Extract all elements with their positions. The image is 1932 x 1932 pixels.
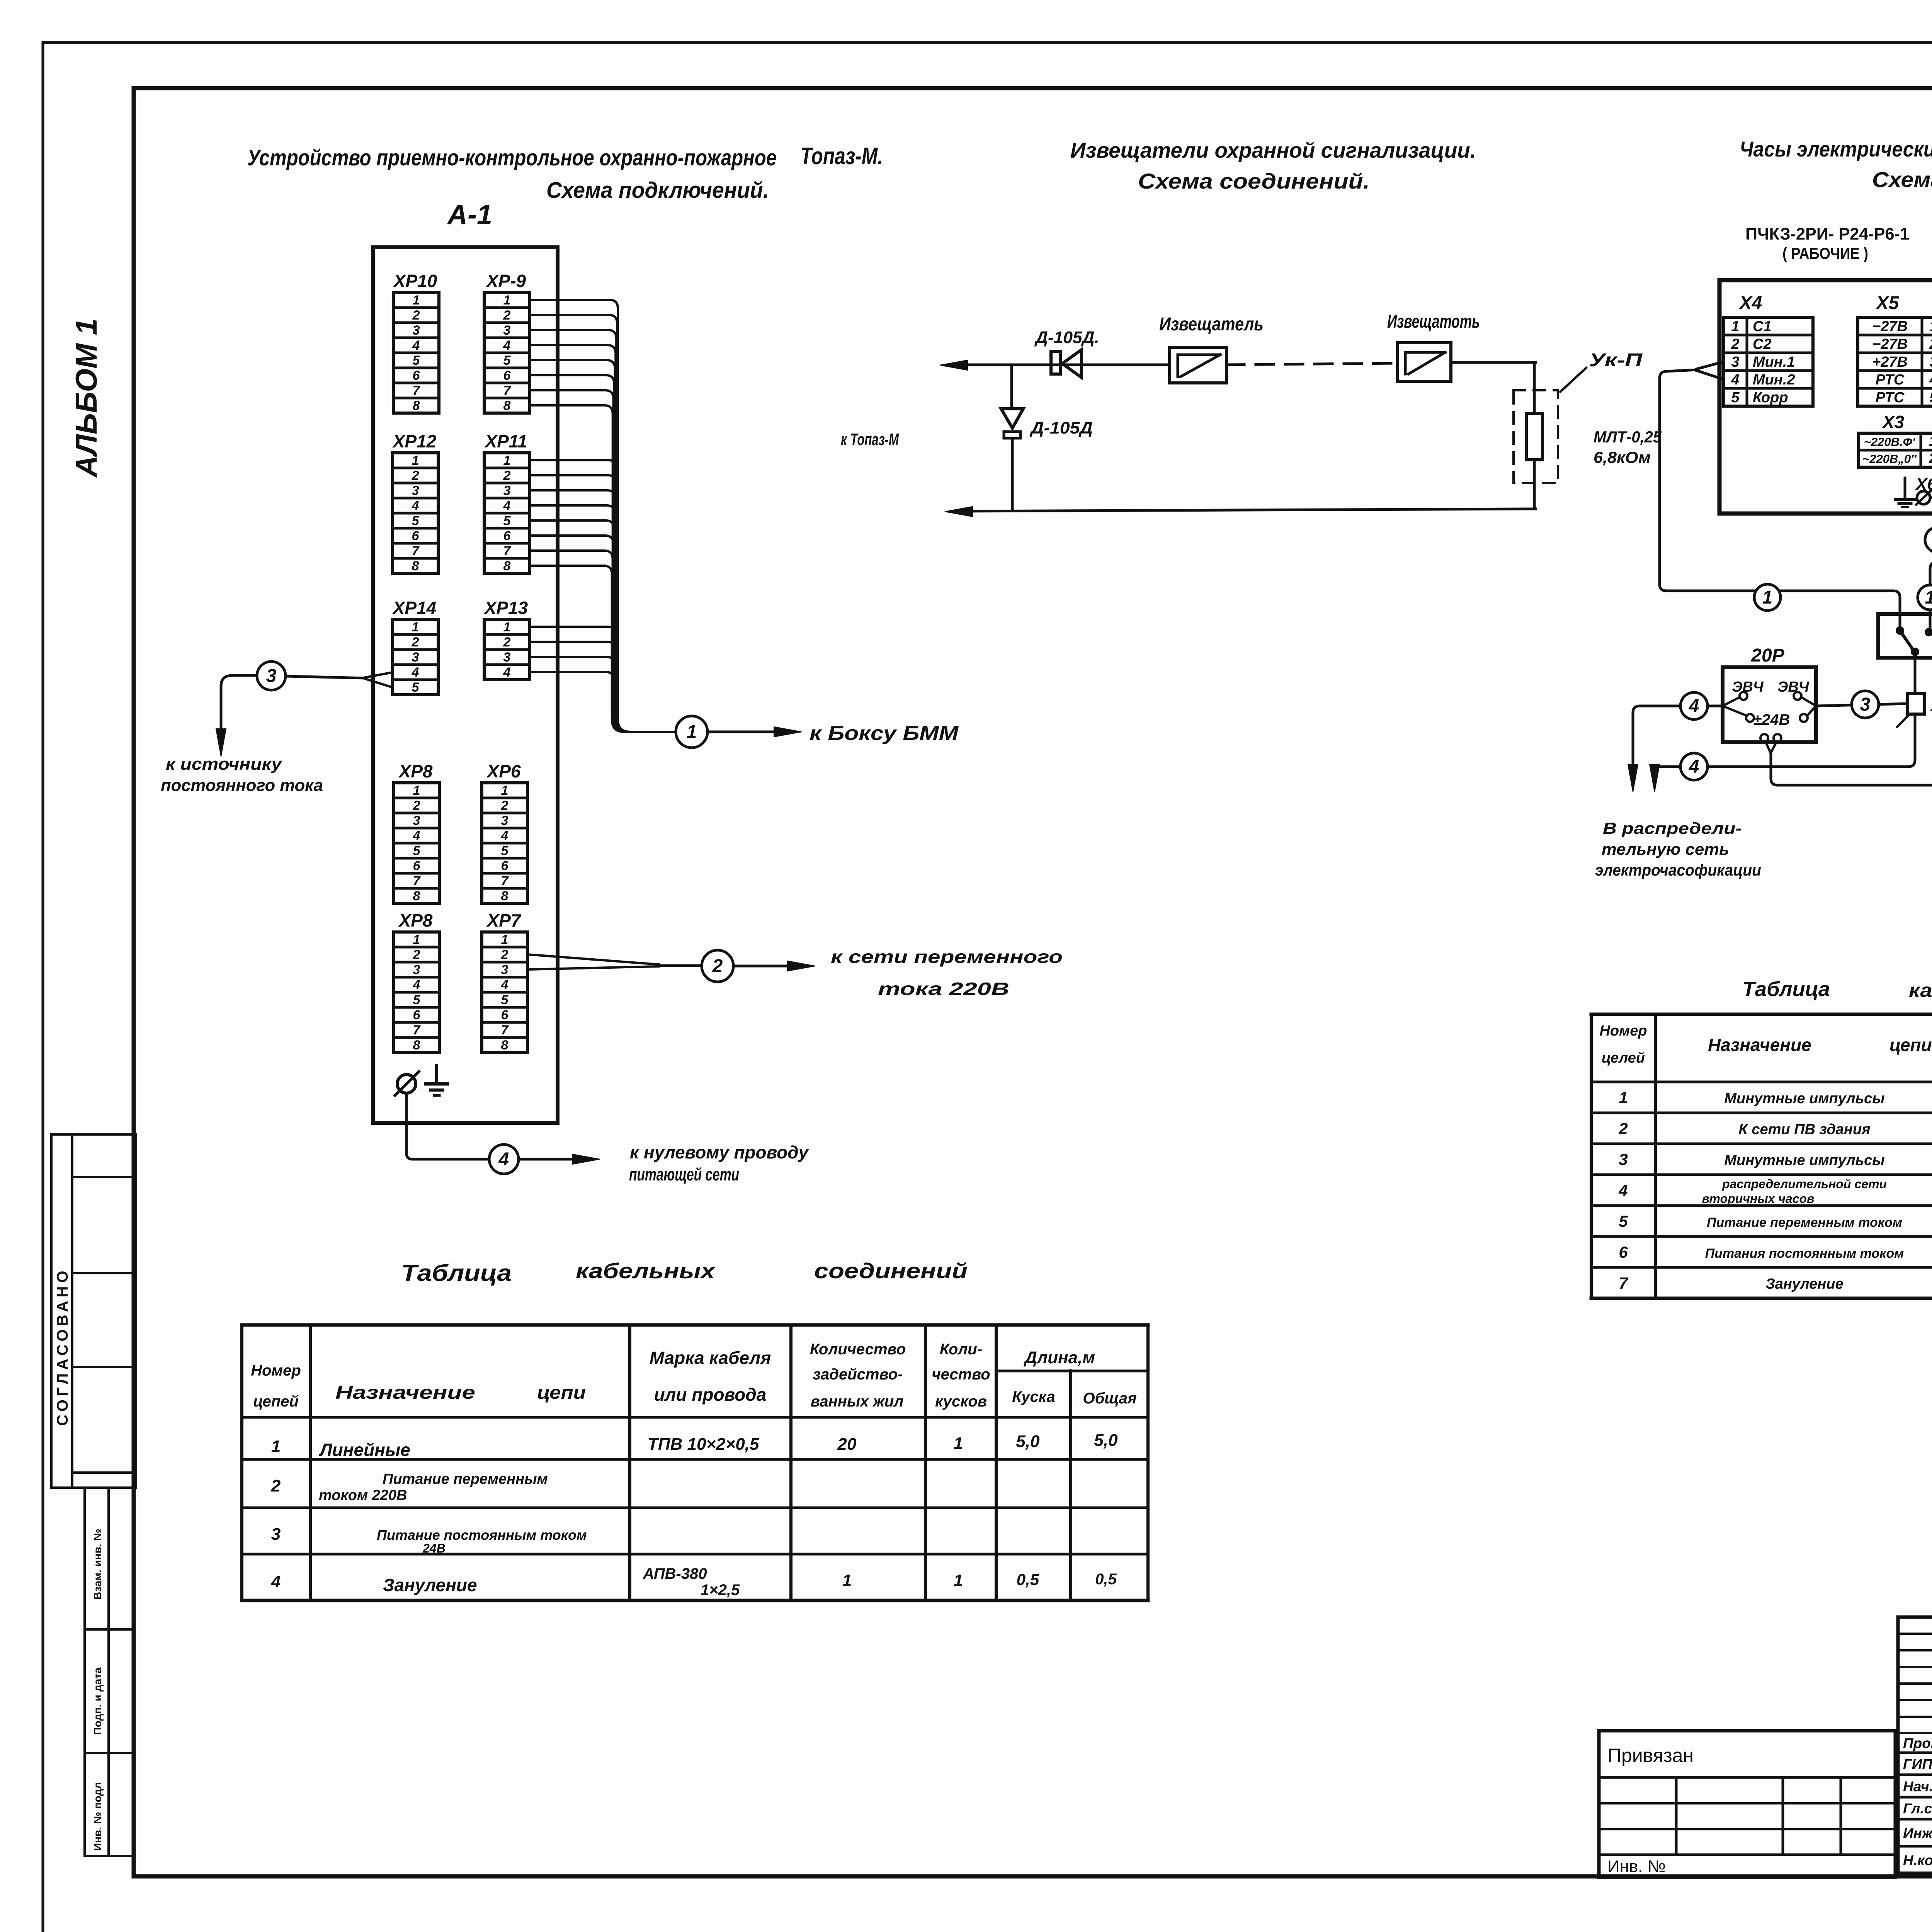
svg-text:Питание переменным: Питание переменным [383,1471,548,1487]
svg-text:−27В: −27В [1872,336,1908,352]
svg-text:4: 4 [1689,757,1699,777]
svg-text:6: 6 [501,1008,509,1022]
svg-text:Х4: Х4 [1738,293,1762,313]
svg-text:Инж.: Инж. [1903,1825,1932,1841]
svg-text:7: 7 [413,1023,421,1037]
svg-text:РТС: РТС [1876,372,1905,388]
svg-text:2: 2 [1929,450,1932,466]
svg-text:питающей сети: питающей сети [629,1164,739,1184]
svg-text:4: 4 [1731,372,1739,388]
svg-text:Минутные импульсы: Минутные импульсы [1724,1090,1884,1107]
svg-text:ХР13: ХР13 [483,598,528,618]
svg-text:ХР8: ХР8 [398,761,433,781]
svg-text:4: 4 [503,338,511,353]
svg-text:СОГЛАСОВАНО: СОГЛАСОВАНО [54,1267,71,1426]
svg-text:6: 6 [413,1008,421,1022]
svg-text:1: 1 [413,932,420,947]
svg-text:Корр: Корр [1753,389,1788,406]
svg-text:3: 3 [1619,1150,1628,1168]
svg-text:вторичных часов: вторичных часов [1702,1192,1815,1206]
svg-text:1: 1 [503,293,511,308]
svg-text:АПВ-380: АПВ-380 [643,1565,707,1582]
svg-text:4: 4 [412,665,419,680]
svg-text:4: 4 [412,498,419,513]
svg-text:2: 2 [501,798,509,813]
svg-text:Инв. № подл: Инв. № подл [92,1782,104,1851]
svg-text:ванных жил: ванных жил [811,1393,904,1410]
svg-text:Мин.1: Мин.1 [1753,354,1795,370]
svg-text:1: 1 [954,1571,963,1590]
svg-text:1: 1 [503,620,511,634]
svg-text:Питание постоянным током: Питание постоянным током [377,1527,587,1543]
svg-text:2: 2 [1618,1119,1628,1138]
svg-text:±24В: ±24В [1753,711,1790,728]
svg-text:3: 3 [501,813,509,828]
svg-text:Куска: Куска [1012,1388,1055,1405]
svg-text:1: 1 [1731,318,1739,335]
svg-text:4: 4 [1689,696,1699,716]
svg-text:1: 1 [1762,587,1773,608]
svg-text:Привязан: Привязан [1607,1745,1694,1766]
svg-text:4: 4 [413,978,420,992]
svg-text:С2: С2 [1753,336,1772,352]
svg-text:7: 7 [503,544,512,558]
svg-text:распределительной сети: распределительной сети [1722,1177,1887,1191]
svg-text:8: 8 [413,1038,420,1053]
svg-text:к Топаз-М: к Топаз-М [841,430,899,449]
svg-text:Номер: Номер [1599,1023,1647,1039]
svg-text:3: 3 [271,1525,281,1544]
svg-text:20Р: 20Р [1751,645,1784,666]
svg-text:ЭВЧ: ЭВЧ [1732,679,1764,695]
svg-text:1: 1 [954,1434,963,1453]
svg-text:8: 8 [413,398,420,413]
svg-text:Назначение: Назначение [335,1383,475,1403]
svg-text:Зануление: Зануление [383,1575,477,1595]
svg-text:Нач.отдела: Нач.отдела [1903,1779,1932,1794]
svg-text:ХР12: ХР12 [392,431,437,451]
svg-text:АЛЬБОМ 1: АЛЬБОМ 1 [69,318,103,478]
svg-text:3: 3 [412,483,419,498]
svg-text:1: 1 [842,1571,852,1590]
svg-text:Мин.2: Мин.2 [1753,372,1795,388]
svg-text:+27В: +27В [1872,354,1908,370]
svg-text:4: 4 [413,828,420,843]
svg-text:УК-П: УК-П [1930,696,1932,715]
svg-text:8: 8 [412,559,419,573]
svg-text:Назначение: Назначение [1708,1035,1811,1055]
svg-text:Номер: Номер [251,1362,301,1379]
svg-text:ТПВ 10×2×0,5: ТПВ 10×2×0,5 [648,1435,759,1454]
svg-text:к Боксу БММ: к Боксу БММ [810,722,959,745]
svg-text:1: 1 [413,783,420,798]
svg-text:С1: С1 [1753,318,1772,335]
svg-text:цепи: цепи [537,1383,586,1403]
svg-text:Топаз-М.: Топаз-М. [800,143,883,170]
svg-text:5: 5 [501,993,509,1007]
svg-text:8: 8 [501,1038,509,1053]
svg-text:Линейные: Линейные [319,1440,410,1460]
svg-text:ХР7: ХР7 [486,910,522,930]
svg-text:3: 3 [413,963,420,977]
svg-text:РТС: РТС [1876,389,1905,406]
svg-text:кусков: кусков [935,1393,987,1410]
svg-text:МЛТ-0,25: МЛТ-0,25 [1594,428,1662,446]
svg-text:3: 3 [266,666,277,686]
svg-text:Зануление: Зануление [1765,1276,1843,1292]
svg-text:5: 5 [1619,1212,1628,1230]
svg-text:Ук-П: Ук-П [1589,350,1643,371]
svg-text:3: 3 [503,650,511,665]
svg-text:4: 4 [412,338,420,353]
svg-text:8: 8 [503,398,511,413]
svg-text:задейство-: задейство- [813,1366,903,1383]
svg-text:соединений: соединений [814,1259,968,1283]
svg-text:К сети ПВ здания: К сети ПВ здания [1738,1121,1870,1138]
svg-text:Д-105Д: Д-105Д [1029,418,1093,437]
svg-text:1×2,5: 1×2,5 [701,1582,740,1599]
svg-text:8: 8 [501,889,509,903]
svg-text:3: 3 [503,483,511,498]
svg-text:1: 1 [412,620,419,634]
svg-text:1: 1 [687,722,697,742]
svg-text:кабельных: кабельных [1909,980,1932,1001]
svg-text:Общая: Общая [1083,1390,1136,1407]
svg-text:4: 4 [1929,372,1932,388]
svg-text:А-1: А-1 [447,199,492,230]
svg-text:2: 2 [412,468,419,483]
svg-text:Минутные импульсы: Минутные импульсы [1724,1152,1884,1168]
svg-text:3: 3 [413,323,420,338]
svg-text:кабельных: кабельных [576,1259,716,1283]
svg-text:1: 1 [503,453,511,468]
svg-text:4: 4 [501,978,509,992]
svg-text:6,8кОм: 6,8кОм [1594,448,1651,466]
svg-text:5: 5 [503,514,511,528]
svg-text:7: 7 [412,544,420,558]
svg-text:электрочасофикации: электрочасофикации [1595,861,1761,879]
svg-text:3: 3 [412,650,419,665]
svg-text:Извещатель: Извещатель [1159,314,1264,335]
svg-text:Инв. №: Инв. № [1607,1857,1666,1876]
svg-text:1: 1 [1929,318,1932,335]
svg-text:( РАБОЧИЕ ): ( РАБОЧИЕ ) [1782,244,1868,262]
svg-text:4: 4 [503,665,511,680]
svg-text:8: 8 [413,889,420,903]
svg-text:6: 6 [501,859,509,873]
svg-text:Подп. и дата: Подп. и дата [92,1667,104,1735]
svg-text:Проверил: Проверил [1903,1735,1932,1751]
svg-text:5: 5 [501,844,509,858]
svg-text:Питание переменным током: Питание переменным током [1707,1215,1902,1230]
svg-text:3: 3 [1731,354,1739,370]
svg-text:2: 2 [712,956,723,976]
svg-text:ГИП: ГИП [1903,1756,1932,1772]
svg-text:1: 1 [501,783,509,798]
svg-text:4: 4 [1618,1181,1628,1199]
svg-text:6: 6 [503,529,511,543]
svg-text:5: 5 [412,514,420,528]
svg-text:2: 2 [413,798,420,813]
svg-text:5,0: 5,0 [1016,1432,1040,1451]
svg-text:Питания постоянным током: Питания постоянным током [1705,1246,1904,1261]
svg-text:или провода: или провода [654,1384,767,1405]
svg-text:3: 3 [503,323,511,338]
svg-text:постоянного тока: постоянного тока [161,776,323,795]
svg-text:6: 6 [412,529,420,543]
svg-text:3: 3 [1860,694,1871,715]
svg-text:5: 5 [413,844,421,858]
svg-text:2: 2 [503,308,511,323]
svg-text:Извещатели охранной сигнализац: Извещатели охранной сигнализации. [1070,138,1476,162]
svg-text:Таблица: Таблица [401,1260,512,1286]
svg-text:6: 6 [503,368,511,383]
svg-text:1: 1 [412,453,419,468]
svg-text:~220В„0'': ~220В„0'' [1862,452,1917,466]
svg-text:Схема соединений.: Схема соединений. [1872,167,1932,192]
svg-text:ХР6: ХР6 [486,761,521,781]
svg-text:2: 2 [503,468,511,483]
svg-text:0,5: 0,5 [1017,1570,1039,1588]
svg-text:6: 6 [413,368,420,383]
svg-text:5: 5 [413,993,421,1007]
svg-text:1: 1 [1619,1088,1628,1107]
svg-text:2: 2 [412,308,420,323]
svg-text:6: 6 [1619,1243,1628,1261]
svg-text:4: 4 [271,1572,281,1591]
svg-text:1: 1 [413,293,420,308]
svg-text:ПЧКЗ-2РИ- Р24-Р6-1: ПЧКЗ-2РИ- Р24-Р6-1 [1745,224,1909,243]
svg-text:6: 6 [413,859,421,873]
svg-text:Часы электрические первичные п: Часы электрические первичные показывающи… [1740,137,1932,161]
svg-text:ХР10: ХР10 [393,271,437,291]
svg-text:5: 5 [1731,389,1740,406]
svg-text:Д-105Д.: Д-105Д. [1034,328,1099,347]
svg-text:7: 7 [503,383,512,398]
svg-text:4: 4 [498,1149,509,1170]
svg-text:3: 3 [501,963,509,977]
svg-text:целей: целей [1602,1050,1645,1066]
svg-text:Схема соединений.: Схема соединений. [1138,169,1370,193]
svg-text:24В: 24В [422,1541,446,1555]
svg-text:ХР14: ХР14 [392,598,437,618]
svg-text:цепей: цепей [253,1393,299,1410]
svg-text:0,5: 0,5 [1095,1571,1117,1588]
svg-text:5: 5 [503,353,511,368]
svg-text:2: 2 [412,635,419,650]
svg-text:1: 1 [501,932,509,947]
svg-text:Устройство приемно-контрольное: Устройство приемно-контрольное охранно-п… [247,145,777,170]
svg-text:5: 5 [413,353,420,368]
svg-text:2: 2 [503,635,511,650]
svg-text:Извещатоть: Извещатоть [1387,311,1480,332]
svg-text:Н.контролер: Н.контролер [1903,1852,1932,1868]
svg-text:4: 4 [503,498,511,513]
svg-text:5,0: 5,0 [1094,1431,1118,1450]
svg-text:цепи: цепи [1889,1035,1932,1055]
svg-text:Х3: Х3 [1881,412,1905,432]
svg-text:8: 8 [503,559,511,573]
svg-text:чество: чество [932,1366,990,1383]
svg-text:ХР11: ХР11 [484,431,527,451]
svg-text:2: 2 [271,1476,281,1495]
svg-text:Гл.спец.: Гл.спец. [1903,1801,1932,1816]
svg-text:Х5: Х5 [1875,293,1900,313]
svg-text:Количество: Количество [810,1341,906,1358]
svg-text:4: 4 [501,828,509,843]
svg-text:1: 1 [1925,587,1932,608]
svg-text:−27В: −27В [1872,318,1908,335]
svg-text:к источнику: к источнику [166,755,283,774]
svg-text:Таблица: Таблица [1742,978,1830,1001]
svg-text:Марка кабеля: Марка кабеля [650,1348,771,1368]
svg-text:тока 220В: тока 220В [878,979,1009,999]
svg-text:ЭВЧ: ЭВЧ [1777,679,1810,695]
svg-text:Взам. инв. №: Взам. инв. № [92,1529,104,1600]
svg-text:Коли-: Коли- [940,1341,982,1358]
svg-text:ХР8: ХР8 [398,910,433,930]
svg-text:5: 5 [1929,389,1932,406]
svg-text:тельную сеть: тельную сеть [1602,840,1729,858]
svg-text:3: 3 [1929,354,1932,370]
svg-text:1: 1 [1929,433,1932,449]
svg-text:Схема подключений.: Схема подключений. [546,178,769,203]
svg-text:~220В.Ф': ~220В.Ф' [1864,435,1916,449]
svg-text:7: 7 [501,874,509,888]
svg-text:ХР-9: ХР-9 [485,271,526,291]
svg-text:1: 1 [271,1437,281,1456]
svg-text:к сети переменного: к сети переменного [831,947,1063,967]
svg-text:3: 3 [413,813,420,828]
svg-text:20: 20 [837,1435,857,1454]
svg-text:2: 2 [501,947,509,962]
svg-text:Длина,м: Длина,м [1023,1348,1095,1367]
svg-text:2: 2 [1731,336,1739,352]
svg-text:током 220В: током 220В [319,1487,407,1503]
svg-text:7: 7 [501,1023,509,1037]
svg-text:2: 2 [1929,336,1932,352]
svg-text:7: 7 [413,383,421,398]
svg-text:7: 7 [413,874,421,888]
svg-text:7: 7 [1619,1274,1628,1292]
svg-text:к нулевому проводу: к нулевому проводу [630,1142,809,1162]
svg-text:5: 5 [412,680,420,695]
svg-text:В распредели-: В распредели- [1603,819,1742,837]
svg-text:2: 2 [413,947,420,962]
